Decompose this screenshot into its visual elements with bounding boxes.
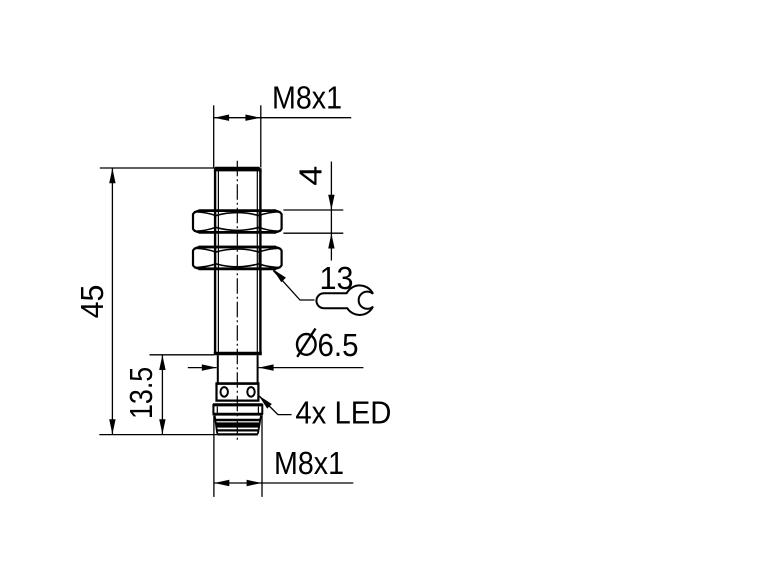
svg-text:6.5: 6.5 <box>318 327 359 363</box>
svg-text:M8x1: M8x1 <box>274 445 344 481</box>
svg-text:45: 45 <box>74 285 110 319</box>
svg-text:4x LED: 4x LED <box>295 395 391 431</box>
svg-text:13: 13 <box>320 260 354 296</box>
svg-text:13.5: 13.5 <box>123 367 159 419</box>
svg-text:4: 4 <box>293 166 329 186</box>
svg-text:M8x1: M8x1 <box>272 79 342 115</box>
